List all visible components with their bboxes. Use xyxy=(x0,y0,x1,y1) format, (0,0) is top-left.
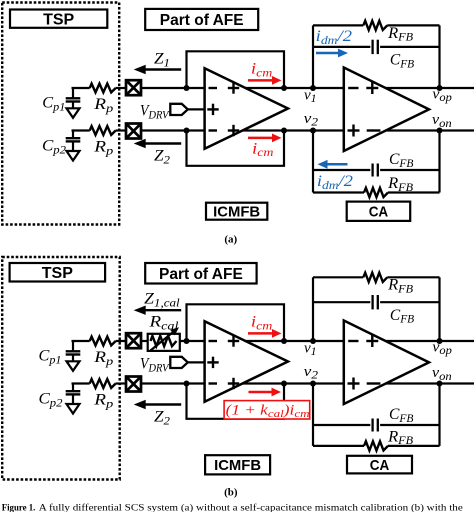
svg-text:Cp2: Cp2 xyxy=(42,138,66,157)
capacitor Cp2 (a) with stub xyxy=(72,131,74,139)
op-amp ICMFB triangle (a) xyxy=(205,68,288,149)
VDRV source symbol (b) xyxy=(170,357,188,368)
svg-text:Cp2: Cp2 xyxy=(39,391,63,410)
TSP block label xyxy=(10,10,107,28)
svg-text:(a): (a) xyxy=(224,233,237,245)
CA bottom input minus marker (a) xyxy=(367,129,381,131)
resistor Rp top (b) xyxy=(90,337,116,346)
CA top feedback right vertical (b) xyxy=(438,277,440,341)
svg-text:von: von xyxy=(432,112,452,130)
svg-text:CA: CA xyxy=(369,204,389,221)
feedback capacitor CFB top wire (a) xyxy=(313,46,370,48)
ground below Cp2 (b) xyxy=(72,395,74,404)
wire: VDRV to ICMFB mid input (a) xyxy=(188,108,205,110)
TSP block label (b) xyxy=(10,263,106,282)
CA top feedback left vertical (b) xyxy=(312,277,314,341)
wire: Rcal to ICMFB inverting input (b) xyxy=(180,340,205,342)
ICMFB feedback loop top wire (b) xyxy=(187,304,285,341)
CA top plus marker (a) xyxy=(366,87,378,89)
svg-text:v2: v2 xyxy=(304,111,319,129)
resistor Rp bottom (b) xyxy=(90,379,116,388)
wire: bottom branch from Cp2 to Rp (a) xyxy=(72,129,90,131)
CA bottom plus marker (b) xyxy=(348,382,360,384)
TSP sensor panel enclosure (b), dashed box xyxy=(2,257,120,480)
feedback resistor RFB top (a) xyxy=(363,21,387,30)
feedback resistor RFB bottom wire (a) xyxy=(313,191,364,193)
svg-text:TSP: TSP xyxy=(43,11,74,28)
ground below Cp1 (b) xyxy=(72,355,74,362)
svg-text:ICMFB: ICMFB xyxy=(214,457,261,474)
wire: top branch from Cp1 to Rp (b) xyxy=(72,340,90,342)
resistor Rp top (a) xyxy=(90,84,116,93)
feedback capacitor CFB top wire (b) xyxy=(313,301,370,303)
ICMFB feedback loop top wire (a) xyxy=(187,51,285,88)
feedback resistor RFB bottom (a) xyxy=(364,188,388,197)
CA bottom input minus marker (b) xyxy=(367,382,381,384)
junction: loop left bottom (b) xyxy=(184,381,190,387)
Part of AFE block label (b) xyxy=(145,263,256,284)
wire output vop (a) xyxy=(386,87,474,89)
op-amp CA triangle (a) xyxy=(344,68,429,152)
junction: loop left top (b) xyxy=(184,338,190,344)
feedback resistor RFB bottom (b) xyxy=(364,441,388,450)
feedback resistor RFB top wire (a) xyxy=(313,24,363,26)
svg-text:RFB: RFB xyxy=(387,25,413,44)
junction: loop right bottom (b) xyxy=(281,381,287,387)
ICMFB feedback loop bottom wire (b) xyxy=(187,384,285,419)
svg-text:Z1: Z1 xyxy=(154,51,170,70)
svg-text:RFB: RFB xyxy=(387,277,413,296)
wire: pad X1 to ICMFB inverting input (a) xyxy=(141,87,205,89)
boxed label (1+kcal)i_cm (b) xyxy=(224,401,310,419)
ground below Cp2 (a) xyxy=(72,142,74,151)
feedback capacitor CFB top (b) xyxy=(371,295,373,309)
svg-text:von: von xyxy=(432,365,452,383)
svg-text:RFB: RFB xyxy=(387,428,413,447)
junction v2 (b) xyxy=(310,381,316,387)
wire: Rp to electrode pad (a) xyxy=(116,87,127,89)
feedback capacitor CFB bottom (b) xyxy=(371,419,373,432)
impedance arrow Z1 (a) xyxy=(145,68,182,70)
svg-text:CFB: CFB xyxy=(389,151,414,170)
wire: pad X1 to Rcal (b) xyxy=(141,340,148,342)
TSP sensor panel enclosure (a), dashed box xyxy=(2,3,119,225)
wire: top branch from Cp1 to Rp (a) xyxy=(72,87,90,89)
svg-text:icm: icm xyxy=(251,314,273,333)
svg-text:Part of AFE: Part of AFE xyxy=(160,12,244,29)
wire output von (a) xyxy=(386,129,474,131)
svg-text:CA: CA xyxy=(370,457,390,474)
wire node v1: ICMFB to CA (a) xyxy=(246,87,344,89)
capacitor Cp1 (b) with stub xyxy=(72,341,74,351)
svg-text:CFB: CFB xyxy=(389,406,414,425)
svg-text:Cp1: Cp1 xyxy=(42,95,65,114)
junction von (b) xyxy=(437,381,443,387)
CA top input minus marker (b) xyxy=(348,340,358,342)
junction vop (a) xyxy=(437,85,443,91)
svg-text:Part of AFE: Part of AFE xyxy=(159,266,243,283)
resistor Rp bottom (a) xyxy=(90,126,116,135)
wire: Rp to electrode pad bottom (b) xyxy=(116,382,127,384)
op-amp ICMFB triangle (b) xyxy=(205,321,288,402)
Part of AFE block label xyxy=(145,9,258,30)
junction v1 (a) xyxy=(310,85,316,91)
ICMFB bottom input minus marker (b) xyxy=(209,382,218,384)
CA top feedback left vertical (a) xyxy=(312,25,314,88)
ICMFB top plus marker (b) xyxy=(228,340,239,342)
svg-text:Rp: Rp xyxy=(93,139,113,158)
ICMFB bottom plus marker (a) xyxy=(228,129,239,131)
feedback resistor RFB bottom wire (b) xyxy=(313,445,364,447)
CA bottom feedback right vertical (b) xyxy=(438,384,440,446)
svg-text:VDRV: VDRV xyxy=(140,103,170,122)
svg-text:(b): (b) xyxy=(224,486,238,498)
electrode pad X1 (b) xyxy=(126,333,141,348)
feedback resistor RFB top wire (b) xyxy=(313,276,363,278)
feedback capacitor CFB bottom wire (a) xyxy=(313,169,370,171)
junction v2 (a) xyxy=(310,128,316,134)
ICMFB block label (b) xyxy=(205,455,270,474)
junction: loop right top (b) xyxy=(281,338,287,344)
junction: loop right top (a) xyxy=(281,85,287,91)
svg-text:Rp: Rp xyxy=(93,96,113,115)
electrode pad X1 (a) xyxy=(126,80,141,95)
junction v1 (b) xyxy=(310,338,316,344)
calibration resistor Rcal (b) xyxy=(148,334,180,351)
svg-text:Z1,cal: Z1,cal xyxy=(144,291,180,310)
impedance arrow Z2 (a) xyxy=(145,142,182,144)
feedback resistor RFB top (b) xyxy=(363,273,387,282)
current arrow i_cm bottom (a) xyxy=(248,137,273,140)
CA bottom feedback left vertical (b) xyxy=(312,384,314,446)
ICMFB top plus marker (a) xyxy=(228,87,239,89)
junction von (a) xyxy=(437,128,443,134)
CA bottom feedback right vertical (a) xyxy=(438,131,440,193)
wire: pad X2 to ICMFB input bottom (b) xyxy=(141,382,205,384)
svg-text:Z2: Z2 xyxy=(154,148,170,167)
svg-text:icm: icm xyxy=(252,140,274,159)
feedback capacitor CFB bottom (a) xyxy=(371,164,373,177)
ICMFB block label (a) xyxy=(206,203,267,220)
wire output vop (b) xyxy=(386,340,474,342)
svg-text:Cp1: Cp1 xyxy=(39,348,62,367)
ICMFB feedback loop bottom wire (a) xyxy=(187,131,285,166)
CA top feedback right vertical (a) xyxy=(438,25,440,88)
wire: bottom branch from Cp2 to Rp (b) xyxy=(72,382,90,384)
ICMFB top input minus marker (b) xyxy=(209,340,218,342)
wire: VDRV to ICMFB mid input (b) xyxy=(188,361,205,363)
ICMFB bottom input minus marker (a) xyxy=(209,129,218,131)
feedback capacitor CFB top (a) xyxy=(371,40,373,54)
svg-text:Rcal: Rcal xyxy=(148,314,179,333)
wire output von (b) xyxy=(386,382,474,384)
current arrow i_cm top (a) xyxy=(248,79,273,82)
impedance arrow Z2 (b) xyxy=(145,403,182,405)
wire node v2: ICMFB to CA (a) xyxy=(243,129,344,131)
svg-text:Rp: Rp xyxy=(93,392,113,411)
wire: Rp to electrode pad bottom (a) xyxy=(116,129,127,131)
svg-text:idm/2: idm/2 xyxy=(316,28,353,47)
ICMFB mid plus marker (b) xyxy=(207,361,218,363)
current arrow i_cm top (b) xyxy=(248,332,273,335)
svg-text:idm/2: idm/2 xyxy=(317,173,353,192)
electrode pad X2 (b) xyxy=(126,377,141,392)
junction: loop left top (a) xyxy=(184,85,190,91)
wire node v2: ICMFB to CA (b) xyxy=(243,382,344,384)
capacitor Cp1 (a) with stub xyxy=(72,88,74,98)
CA block label (b) xyxy=(347,456,412,474)
junction vop (b) xyxy=(437,338,443,344)
impedance arrow Z1,cal (b) xyxy=(145,309,182,311)
svg-text:ICMFB: ICMFB xyxy=(213,204,260,221)
differential current arrow idm/2 top (a) xyxy=(316,52,339,55)
svg-text:Z2: Z2 xyxy=(154,409,170,428)
svg-text:TSP: TSP xyxy=(42,265,73,282)
CA bottom plus marker (a) xyxy=(348,129,360,131)
svg-text:v2: v2 xyxy=(304,364,319,382)
capacitor Cp2 (b) with stub xyxy=(72,384,74,392)
differential current arrow idm/2 bottom (a) xyxy=(327,163,348,166)
wire: pad X2 to ICMFB input bottom (a) xyxy=(141,129,205,131)
feedback capacitor CFB bottom wire (b) xyxy=(313,424,370,426)
ICMFB top input minus marker (a) xyxy=(209,87,218,89)
CA block label (a) xyxy=(347,202,411,221)
svg-text:Rp: Rp xyxy=(93,349,113,368)
junction: loop right bottom (a) xyxy=(281,128,287,134)
svg-text:VDRV: VDRV xyxy=(140,356,170,375)
svg-text:Figure 1.A fully differential: Figure 1.A fully differential SCS system… xyxy=(2,503,464,512)
svg-text:CFB: CFB xyxy=(390,52,414,71)
svg-text:icm: icm xyxy=(251,61,273,80)
op-amp CA triangle (b) xyxy=(344,321,429,405)
svg-text:CFB: CFB xyxy=(390,307,414,326)
electrode pad X2 (a) xyxy=(126,124,141,139)
current arrow (1+kcal)i_cm (b) xyxy=(249,391,273,394)
wire node v1: ICMFB to CA (b) xyxy=(246,340,344,342)
ICMFB bottom plus marker (b) xyxy=(228,382,239,384)
ICMFB mid plus marker (a) xyxy=(207,108,218,110)
svg-text:RFB: RFB xyxy=(387,175,413,194)
wire: Rp to electrode pad (b) xyxy=(116,340,127,342)
VDRV source symbol (a) xyxy=(170,104,188,115)
junction: loop left bottom (a) xyxy=(184,128,190,134)
CA top plus marker (b) xyxy=(366,340,378,342)
CA top input minus marker (a) xyxy=(348,87,358,89)
ground below Cp1 (a) xyxy=(72,102,74,109)
CA bottom feedback left vertical (a) xyxy=(312,131,314,193)
